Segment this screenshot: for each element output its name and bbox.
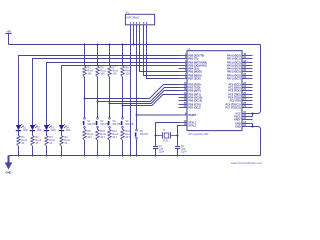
capacitor C1 22pF <box>153 145 165 154</box>
wire +5V to VCC/AVCC <box>253 45 261 114</box>
pin 40 PA0 <box>227 53 252 58</box>
+5V rail wire (top) <box>9 44 261 46</box>
svg-text:1K: 1K <box>49 142 52 145</box>
svg-text:GND: GND <box>6 171 12 175</box>
wire node to switch S3 <box>109 104 111 118</box>
resistor R6 10K <box>96 66 107 77</box>
LED D4 <box>59 124 71 132</box>
svg-text:22pF: 22pF <box>181 150 187 153</box>
pin 18 PD4 <box>179 95 203 100</box>
pin 26 PC4 <box>228 95 252 100</box>
pin 24 PC2 <box>229 88 253 93</box>
pin 38 PA2 <box>227 60 252 65</box>
resistor R11 4K7 <box>108 129 119 140</box>
wire node to switch S4 <box>122 106 124 118</box>
resistor R1 1K <box>17 136 28 147</box>
wire node to PD2 <box>110 91 179 104</box>
wire resistor to node <box>84 77 86 99</box>
pin 20 PD6 <box>179 102 202 107</box>
svg-text:SW-PB: SW-PB <box>87 123 95 126</box>
pin 23 PC1 <box>228 85 252 90</box>
wire C1 to ground rail <box>155 149 157 156</box>
wire ISP pin3 RESET <box>136 25 138 115</box>
pin 28 PC6 <box>225 102 252 107</box>
wire PB3 to LED D4 <box>62 66 179 126</box>
svg-text:www.CircuitsToday.com: www.CircuitsToday.com <box>231 161 263 165</box>
svg-text:PD7 (OC2): PD7 (OC2) <box>188 106 200 109</box>
wire ISP pin6 SCK to PB7 <box>147 25 179 79</box>
svg-text:4K7: 4K7 <box>87 136 92 139</box>
pin 39 PA1 <box>227 56 252 61</box>
resistor R10 4K7 <box>96 129 107 140</box>
pin 21 PD7 <box>179 105 201 110</box>
pin 25 PC3 <box>228 92 252 97</box>
switch S2 SW-PB <box>97 118 109 129</box>
wire +5V to R6 <box>97 45 99 67</box>
wire LED to R4 <box>61 131 63 136</box>
resistor R2 1K <box>31 136 42 147</box>
pin 22 PC0 <box>229 82 253 87</box>
LED D3 <box>44 124 56 132</box>
wire to ground rail <box>84 140 86 155</box>
wire XTAL1 to crystal <box>156 123 179 146</box>
pin 32 AREF <box>234 117 253 122</box>
pin 14 PD0 <box>179 82 201 87</box>
pin 33 PA7 <box>227 76 252 81</box>
resistor R5 10K <box>83 66 94 77</box>
wire switch to resistor <box>109 128 111 129</box>
ground rail wire (bottom) <box>9 155 261 157</box>
wire to ground rail <box>122 140 124 155</box>
wire +5V to R8 <box>122 45 124 67</box>
wire +5V to R7 <box>109 45 111 67</box>
svg-text:4K7: 4K7 <box>112 136 117 139</box>
wire node to PD0 <box>85 85 179 99</box>
pin 1 PB0 <box>179 53 205 58</box>
wire LED to R3 <box>46 131 48 136</box>
pin 37 PA3 <box>227 63 252 68</box>
wire to ground rail <box>109 140 111 155</box>
ground symbol GND <box>5 156 13 175</box>
wire PB0 to LED D1 <box>19 56 179 126</box>
svg-text:ISPCABLE: ISPCABLE <box>126 16 139 20</box>
wire node to PD1 <box>98 88 179 102</box>
svg-text:LED: LED <box>51 129 56 132</box>
svg-text:ATmega16L-8PI: ATmega16L-8PI <box>188 132 208 136</box>
svg-text:PA7 (ADC7): PA7 (ADC7) <box>227 77 241 80</box>
wire to ground rail <box>61 146 63 156</box>
crystal Y1 XTAL <box>156 129 178 143</box>
pin 11 GND <box>235 121 252 126</box>
capacitor C2 22pF <box>175 145 187 154</box>
wire ISP pin5 MISO to PB6 <box>144 25 179 76</box>
pin 6 PB5 <box>179 69 202 74</box>
resistor R9 4K7 <box>83 129 94 140</box>
pin 31 GND <box>235 124 252 129</box>
wire PB2 to LED D3 <box>47 63 179 126</box>
pin 34 PA6 <box>227 73 252 78</box>
resistor R8 10K <box>121 66 132 77</box>
switch S4 SW-PB <box>122 118 134 129</box>
svg-text:SW-PB: SW-PB <box>140 133 148 136</box>
svg-text:SW-PB: SW-PB <box>125 123 133 126</box>
svg-text:10K: 10K <box>112 73 117 76</box>
wire XTAL2 to crystal <box>178 126 179 146</box>
svg-text:XTAL2: XTAL2 <box>188 124 196 127</box>
wire AVCC tie <box>252 114 254 117</box>
switch S1 SW-PB <box>84 118 96 129</box>
pin 17 PD3 <box>179 92 201 97</box>
svg-text:RESET: RESET <box>188 114 197 117</box>
pin 3 PB2 <box>179 60 208 65</box>
pin 19 PD5 <box>179 98 203 103</box>
wire to ground rail <box>32 146 34 156</box>
svg-text:PC7 (TOSC2): PC7 (TOSC2) <box>225 106 240 109</box>
wire ISP pin1 GND to ground rail <box>130 25 132 156</box>
wire node to PD3 <box>123 95 179 106</box>
wire GND pins to ground rail <box>253 124 261 156</box>
svg-text:PC5 (TDI): PC5 (TDI) <box>230 99 241 102</box>
wire LED to R1 <box>18 131 20 136</box>
wire node to switch S2 <box>97 102 99 118</box>
resistor R3 1K <box>45 136 56 147</box>
pin 13 XTAL1 <box>179 120 197 125</box>
wire resistor to node <box>122 77 124 106</box>
pin 29 PC7 <box>225 105 252 110</box>
wire to ground rail <box>18 146 20 156</box>
wire S5 to ground rail <box>136 139 138 155</box>
wire to ground rail <box>46 146 48 156</box>
pin 16 PD2 <box>179 88 201 93</box>
svg-text:1K: 1K <box>21 142 24 145</box>
pin 15 PD1 <box>179 85 201 90</box>
svg-text:10K: 10K <box>125 73 130 76</box>
svg-text:LED: LED <box>37 129 42 132</box>
svg-text:1K: 1K <box>64 142 67 145</box>
svg-text:GND: GND <box>235 125 241 128</box>
wire node to switch S1 <box>84 99 86 118</box>
wire resistor to node <box>97 77 99 102</box>
pin 4 PB3 <box>179 63 207 68</box>
svg-text:LED: LED <box>66 129 71 132</box>
svg-text:10K: 10K <box>100 73 105 76</box>
svg-text:SW-PB: SW-PB <box>112 123 120 126</box>
svg-text:PB1 (T1): PB1 (T1) <box>188 57 198 60</box>
svg-text:PA1 (ADC1): PA1 (ADC1) <box>227 57 241 60</box>
svg-text:10K: 10K <box>87 73 92 76</box>
svg-text:PA5 (ADC5): PA5 (ADC5) <box>227 70 241 73</box>
pin 12 XTAL2 <box>179 123 197 128</box>
wire switch to resistor <box>84 128 86 129</box>
svg-text:4K7: 4K7 <box>100 136 105 139</box>
LED D1 <box>16 124 28 132</box>
pin 8 PB7 <box>179 76 201 81</box>
wire ISP pin4 MOSI to PB5 <box>140 25 179 72</box>
pin 36 PA4 <box>227 66 252 71</box>
wire RESET net to U1 <box>137 114 179 116</box>
switch S3 SW-PB <box>109 118 121 129</box>
wire LED to R2 <box>32 131 34 136</box>
svg-text:SW-PB: SW-PB <box>100 123 108 126</box>
wire +5V to R5 <box>84 45 86 67</box>
svg-text:22pF: 22pF <box>159 150 165 153</box>
pin 30 AVCC <box>234 114 253 119</box>
wire switch to resistor <box>122 128 124 129</box>
resistor R7 10K <box>108 66 119 77</box>
IC U1 ATmega16 <box>187 48 242 136</box>
connector P1 ISPCABLE <box>125 12 154 26</box>
power port +5V <box>5 29 11 44</box>
LED D2 <box>30 124 42 132</box>
wire PB1 to LED D2 <box>33 59 179 126</box>
resistor R12 4K7 <box>121 129 132 140</box>
svg-text:PD5 (OC1A): PD5 (OC1A) <box>188 99 202 102</box>
svg-text:4K7: 4K7 <box>125 136 130 139</box>
resistor R4 1K <box>60 136 71 147</box>
pin 2 PB1 <box>179 56 199 61</box>
svg-text:PB7 (SCK): PB7 (SCK) <box>188 77 200 80</box>
wire resistor to node <box>109 77 111 104</box>
pin 27 PC5 <box>230 98 253 103</box>
svg-text:AREF: AREF <box>234 118 241 121</box>
pin 35 PA5 <box>227 69 252 74</box>
pin 7 PB6 <box>179 73 202 78</box>
pin 5 PB4 <box>179 66 199 71</box>
svg-text:1K: 1K <box>35 142 38 145</box>
switch S5 SW-PB (reset) <box>136 115 149 139</box>
svg-text:LED: LED <box>23 129 28 132</box>
wire ISP pin2 VCC to +5V rail <box>133 25 135 45</box>
wire to ground rail <box>97 140 99 155</box>
svg-text:PD2 (INT0): PD2 (INT0) <box>188 89 201 92</box>
svg-text:PC2 (TCK): PC2 (TCK) <box>229 89 241 92</box>
wire switch to resistor <box>97 128 99 129</box>
wire C2 to ground rail <box>177 149 179 156</box>
svg-text:PB5 (MOSI): PB5 (MOSI) <box>188 70 201 73</box>
pin 9 RESET <box>179 112 198 117</box>
pin 10 VCC <box>235 111 252 116</box>
svg-text:+5V: +5V <box>6 29 11 33</box>
svg-text:XTAL: XTAL <box>163 140 170 143</box>
